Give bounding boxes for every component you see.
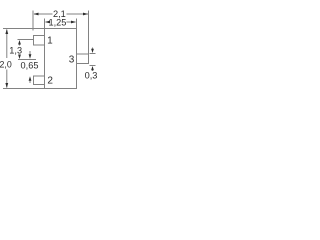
svg-text:0,3: 0,3 — [85, 71, 98, 81]
svg-text:1: 1 — [47, 36, 53, 47]
svg-text:1,3: 1,3 — [9, 45, 22, 55]
svg-text:2,0: 2,0 — [0, 59, 12, 69]
svg-text:0,65: 0,65 — [21, 61, 39, 71]
svg-text:2: 2 — [47, 76, 53, 87]
svg-text:1,25: 1,25 — [48, 18, 66, 28]
svg-text:3: 3 — [69, 55, 75, 66]
